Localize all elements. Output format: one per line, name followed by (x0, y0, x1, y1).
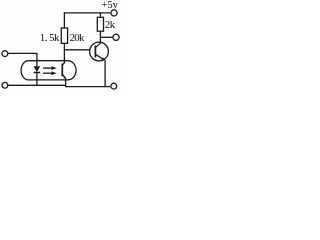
resistor R3 2k body (97, 17, 103, 31)
transistor Q1 circle (90, 42, 109, 61)
phototransistor collector stroke (62, 62, 64, 66)
light arrow 2 head (51, 71, 56, 75)
wire input bottom rail (8, 84, 66, 86)
terminal input top (2, 51, 8, 57)
terminal +5V (111, 10, 117, 16)
resistor R2 20k body (61, 28, 67, 43)
terminal input bottom (2, 82, 8, 88)
phototransistor emitter stroke (62, 74, 65, 78)
resistor R3 2k bottom lead (99, 31, 101, 43)
wire +5V top rail (64, 12, 111, 14)
resistor R3 2k top lead (99, 13, 101, 17)
wire base node down to optocoupler (63, 50, 65, 63)
svg-text:20k: 20k (70, 32, 85, 44)
phototransistor base bar (61, 64, 63, 77)
resistor R2 20k top lead (63, 12, 65, 28)
LED D1 cathode bar (34, 72, 41, 74)
wire collector output (100, 36, 113, 38)
transistor Q1 emitter arrowhead (102, 57, 105, 60)
light arrow 2 shaft (43, 72, 53, 74)
LED D1 triangle (34, 66, 41, 72)
phototransistor emitter arrowhead (63, 76, 66, 79)
resistor R2 20k bottom lead (63, 43, 65, 50)
wire bottom rail (65, 86, 110, 88)
wire input top to LED anode (8, 53, 37, 66)
light arrow 1 shaft (43, 67, 53, 69)
transistor Q1 emitter stroke (95, 54, 104, 60)
light arrow 1 head (51, 66, 56, 70)
terminal collector output (113, 34, 119, 40)
terminal emitter output (111, 83, 117, 89)
svg-text:2k: 2k (105, 19, 116, 31)
transistor Q1 base bar (94, 45, 96, 57)
svg-text:1. 5k: 1. 5k (40, 32, 60, 44)
svg-text:+5v: +5v (102, 0, 119, 11)
wire base node to transistor Q1 base (64, 49, 91, 51)
wire emitter down (104, 60, 106, 87)
optocoupler U1 package outline (21, 61, 76, 80)
wire phototransistor emitter down (65, 78, 67, 87)
transistor Q1 collector stroke (95, 43, 100, 48)
wire LED cathode down (36, 73, 38, 86)
